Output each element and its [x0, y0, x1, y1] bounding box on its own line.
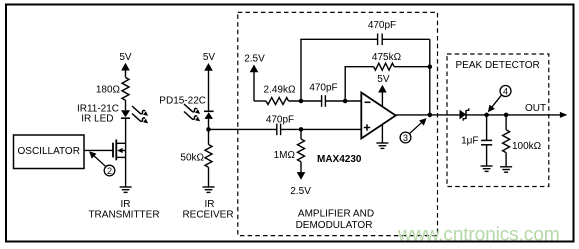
svg-text:4: 4: [503, 87, 508, 97]
wire node C to 1M: [300, 129, 302, 139]
svg-text:470pF: 470pF: [309, 82, 337, 93]
callout 3: [400, 118, 427, 143]
diode (schottky): [460, 108, 469, 120]
junction 475k/feedback: [428, 64, 433, 69]
svg-text:TRANSMITTER: TRANSMITTER: [88, 210, 159, 221]
ground (receiver): [203, 187, 215, 192]
wire 50k to ground: [208, 167, 210, 187]
svg-text:AMPLIFIER AND: AMPLIFIER AND: [298, 209, 374, 220]
svg-text:PEAK DETECTOR: PEAK DETECTOR: [456, 60, 540, 71]
resistor 180Ω: [96, 78, 129, 101]
ground (op-amp): [376, 143, 388, 148]
svg-text:DEMODULATOR: DEMODULATOR: [296, 220, 373, 231]
wire LED to MOSFET drain: [125, 118, 127, 143]
junction (cap node): [484, 113, 489, 118]
reference 2.5V (left): [244, 54, 265, 102]
ground (1uF): [481, 166, 493, 171]
svg-text:5V: 5V: [119, 52, 132, 63]
junction (receiver node): [206, 127, 211, 132]
svg-text:1MΩ: 1MΩ: [274, 150, 296, 161]
supply 5V (receiver): [203, 52, 216, 111]
svg-text:RECEIVER: RECEIVER: [182, 210, 233, 221]
svg-text:IR: IR: [121, 199, 131, 210]
svg-text:50kΩ: 50kΩ: [180, 153, 204, 164]
photodiode PD15-22C: [159, 96, 213, 122]
capacitor 1μF: [461, 115, 492, 166]
wire feedback vertical: [429, 39, 431, 115]
wire source to ground: [125, 157, 127, 187]
label IR RECEIVER: [182, 199, 233, 221]
reference 2.5V (down arrow): [290, 162, 311, 197]
OUT arrowhead: [560, 112, 568, 118]
wire output row: [396, 114, 460, 116]
resistor 2.49kΩ: [264, 85, 296, 105]
resistor 50kΩ: [180, 145, 212, 168]
svg-text:OSCILLATOR: OSCILLATOR: [18, 146, 80, 157]
svg-text:100kΩ: 100kΩ: [512, 141, 542, 152]
svg-text:180Ω: 180Ω: [96, 85, 121, 96]
svg-text:1μF: 1μF: [461, 136, 478, 147]
wire resistor to cap: [289, 100, 322, 102]
label IR TRANSMITTER: [88, 199, 159, 221]
svg-text:IR: IR: [205, 199, 215, 210]
ground (transmitter): [120, 187, 132, 192]
resistor 1MΩ: [274, 139, 305, 162]
junction node A: [299, 99, 304, 104]
junction output node: [428, 113, 433, 118]
resistor 475kΩ: [372, 52, 402, 70]
wire input row (+ input): [209, 128, 277, 130]
wire cap to inverting input: [325, 100, 361, 102]
transistor NMOS: [113, 140, 126, 161]
supply 5V (transmitter): [119, 52, 132, 78]
junction (resistor node): [504, 113, 509, 118]
svg-text:OUT: OUT: [525, 103, 546, 114]
callout 2: [89, 151, 115, 176]
svg-text:2.5V: 2.5V: [244, 54, 265, 65]
wire photodiode to node: [208, 119, 210, 145]
svg-text:PD15-22C: PD15-22C: [159, 96, 206, 107]
capacitor 470pF (input): [266, 114, 294, 135]
op-amp MAX4230: [317, 93, 396, 166]
callout 4: [488, 86, 511, 113]
supply 5V (op-amp): [377, 74, 390, 106]
wire node B up to 475k: [344, 67, 346, 101]
svg-text:475kΩ: 475kΩ: [372, 52, 402, 63]
capacitor 470pF (middle): [309, 82, 337, 107]
svg-text:3: 3: [403, 133, 408, 143]
svg-text:www.cntronics.com: www.cntronics.com: [397, 225, 560, 246]
peak detector dashed box: [447, 54, 549, 187]
ground (100k): [500, 167, 512, 172]
wire 475k row right: [394, 66, 430, 68]
wire 475k row left: [345, 66, 374, 68]
amplifier dashed box: [238, 12, 438, 235]
wire 2.5V to resistor: [254, 100, 266, 102]
label AMPLIFIER AND DEMODULATOR: [296, 209, 375, 231]
wire gate to oscillator: [84, 149, 113, 151]
svg-text:MAX4230: MAX4230: [317, 154, 362, 165]
wire diode to OUT: [466, 114, 561, 116]
wire op-amp V- to ground: [381, 124, 383, 143]
wire resistor to LED: [125, 100, 127, 110]
svg-text:2.49kΩ: 2.49kΩ: [264, 85, 296, 96]
svg-text:2: 2: [107, 166, 112, 176]
LED IR11-21C: [77, 104, 148, 125]
capacitor 470pF (top feedback): [368, 20, 396, 45]
wire top feedback row left: [300, 38, 377, 40]
wire node A up to top cap: [300, 39, 302, 101]
oscillator box: [14, 135, 85, 169]
wire top feedback row right: [382, 38, 430, 40]
svg-text:5V: 5V: [377, 74, 390, 85]
wire cap to non-inverting input: [281, 128, 362, 130]
junction node C: [299, 127, 304, 132]
resistor 100kΩ: [503, 115, 542, 167]
svg-text:470pF: 470pF: [368, 20, 396, 31]
svg-text:2.5V: 2.5V: [290, 186, 311, 197]
svg-text:470pF: 470pF: [266, 114, 294, 125]
svg-text:5V: 5V: [203, 52, 216, 63]
junction node B: [343, 99, 348, 104]
svg-text:IR LED: IR LED: [81, 114, 113, 125]
